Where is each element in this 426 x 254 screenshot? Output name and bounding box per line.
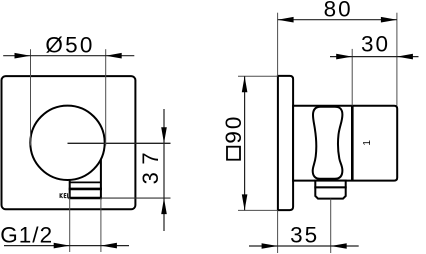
dimension 80: extension line left bbox=[277, 13, 279, 76]
knob circle Ø50 bbox=[30, 106, 104, 180]
svg-text:30: 30 bbox=[361, 31, 390, 56]
dimension G1/2: dimension line bbox=[4, 245, 129, 247]
svg-text:90: 90 bbox=[221, 115, 246, 144]
KEUCO logo text bbox=[60, 193, 69, 198]
dimension 37: top arrow bbox=[161, 127, 167, 143]
dimension square-90: extension line top bbox=[238, 75, 278, 77]
wall plate (side view) bbox=[278, 76, 293, 210]
dimension square-90: square symbol bbox=[227, 147, 240, 160]
outlet nipple left edge (front) bbox=[69, 150, 71, 199]
knob body (side view) bbox=[293, 106, 397, 181]
dimension 35: right arrow bbox=[331, 243, 347, 249]
nipple axis extension to 35 dim bbox=[330, 199, 332, 253]
dimension square-90: extension line bottom bbox=[238, 209, 278, 211]
dimension 37: bottom arrow bbox=[161, 198, 167, 214]
dimension Ø50: extension line right bbox=[105, 49, 107, 145]
outlet nipple right edge (front) bbox=[100, 150, 102, 199]
dimension 80: left arrow bbox=[278, 17, 294, 23]
svg-text:1: 1 bbox=[362, 140, 373, 146]
dimension square-90: bottom arrow bbox=[242, 194, 248, 210]
dimension 30: left arrow bbox=[336, 54, 352, 60]
dimension 30: dimension line bbox=[330, 56, 419, 58]
dimension 35: dimension line bbox=[249, 245, 359, 247]
dimension square-90: dimension line bbox=[244, 76, 246, 210]
svg-text:35: 35 bbox=[290, 222, 319, 247]
dimension 30: right arrow bbox=[397, 54, 413, 60]
dimension 30: extension line left bbox=[351, 49, 353, 106]
svg-text:G1/2: G1/2 bbox=[0, 222, 53, 247]
dimension Ø50: dimension line bbox=[3, 55, 134, 57]
dimension 80: dimension line bbox=[278, 19, 397, 21]
dimension Ø50: extension line left bbox=[30, 49, 32, 145]
dimension 80: extension line right bbox=[396, 13, 398, 106]
dimension G1/2: left arrow bbox=[54, 243, 70, 249]
dimension G1/2: extension line right bbox=[100, 198, 102, 252]
feature line from nipple bottom to 37 dim bbox=[101, 197, 171, 199]
dimension 35: extension line left bbox=[277, 210, 279, 253]
dimension 35: left arrow bbox=[262, 243, 278, 249]
dimension Ø50: right arrow bbox=[106, 53, 122, 59]
dimension G1/2: right arrow bbox=[101, 243, 117, 249]
dimension Ø50: left arrow bbox=[15, 53, 31, 59]
nipple flange top line (front) bbox=[70, 181, 101, 183]
body divider edge bbox=[351, 106, 354, 181]
svg-text:Ø50: Ø50 bbox=[45, 32, 94, 57]
hose holder bracket (bone-shaped profile) bbox=[313, 107, 343, 179]
dimension 37: dimension line bbox=[163, 109, 165, 231]
wall plate (front view, square 90) bbox=[2, 76, 136, 209]
dimension G1/2: extension line left bbox=[69, 198, 71, 252]
nipple flange bottom line (front) bbox=[69, 188, 102, 191]
nipple bottom edge (front) bbox=[69, 197, 102, 200]
dimension 80: right arrow bbox=[381, 17, 397, 23]
centerline of knob to 37 dim bbox=[68, 142, 171, 144]
hose nipple flange (side view) bbox=[315, 181, 345, 188]
dimension square-90: top arrow bbox=[242, 76, 248, 92]
svg-text:80: 80 bbox=[324, 0, 353, 22]
hose nipple nut (side view, chamfered) bbox=[315, 187, 345, 198]
